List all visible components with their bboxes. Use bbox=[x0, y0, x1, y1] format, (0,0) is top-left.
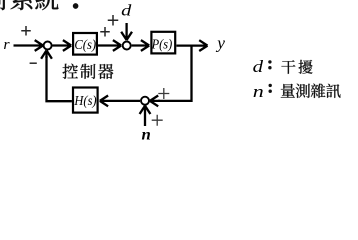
svg-text:d: d bbox=[121, 3, 132, 20]
summing junction S1 bbox=[44, 42, 52, 50]
wire d into S2 with arrowhead bbox=[121, 23, 132, 40]
title text (cut off at top): 控制系統： bbox=[0, 0, 6, 10]
wire S3 to H(s) with arrowhead bbox=[100, 96, 140, 107]
svg-text:d: d bbox=[253, 57, 264, 76]
block C(s) compensator bbox=[73, 33, 97, 55]
label 控制器 (controller) bbox=[63, 64, 78, 79]
feedback tap wire: down from output line, left along bottom bbox=[158, 45, 192, 101]
plus sign at S2 top input (d) bbox=[108, 15, 119, 25]
svg-text:C(s): C(s) bbox=[74, 38, 96, 53]
summing junction S2 bbox=[123, 42, 131, 50]
wire into summing junction S3 with arrowhead bbox=[150, 96, 160, 107]
wire r into summing junction S1 with arrowhead bbox=[14, 40, 44, 51]
svg-text:n: n bbox=[142, 126, 151, 143]
svg-text:P(s): P(s) bbox=[151, 38, 173, 53]
wire S1 to C(s) with arrowhead bbox=[52, 40, 71, 51]
plus sign at S2 left input bbox=[100, 27, 110, 37]
wire n into S3 with arrowhead bbox=[140, 106, 151, 126]
wire S2 to P(s) with arrowhead bbox=[132, 40, 150, 51]
block H(s) sensor bbox=[73, 88, 98, 113]
svg-text:r: r bbox=[3, 37, 9, 53]
block P(s) plant bbox=[151, 32, 175, 54]
minus sign at S1 lower (feedback) input bbox=[30, 62, 37, 64]
summing junction S3 bbox=[141, 97, 149, 105]
plus sign at S3 right input bbox=[158, 88, 169, 99]
wire C(s) to summing junction S2 with arrowhead bbox=[98, 40, 121, 51]
plus sign at S3 bottom input (n) bbox=[152, 115, 163, 126]
feedback wire H(s) back up into S1 with arrowhead bbox=[47, 56, 72, 101]
plus sign at S1 upper input bbox=[21, 26, 31, 36]
svg-text:H(s): H(s) bbox=[74, 94, 97, 109]
svg-text:n: n bbox=[253, 82, 264, 101]
wire P(s) to output node y with arrowhead bbox=[176, 40, 207, 51]
svg-text:y: y bbox=[215, 34, 225, 53]
